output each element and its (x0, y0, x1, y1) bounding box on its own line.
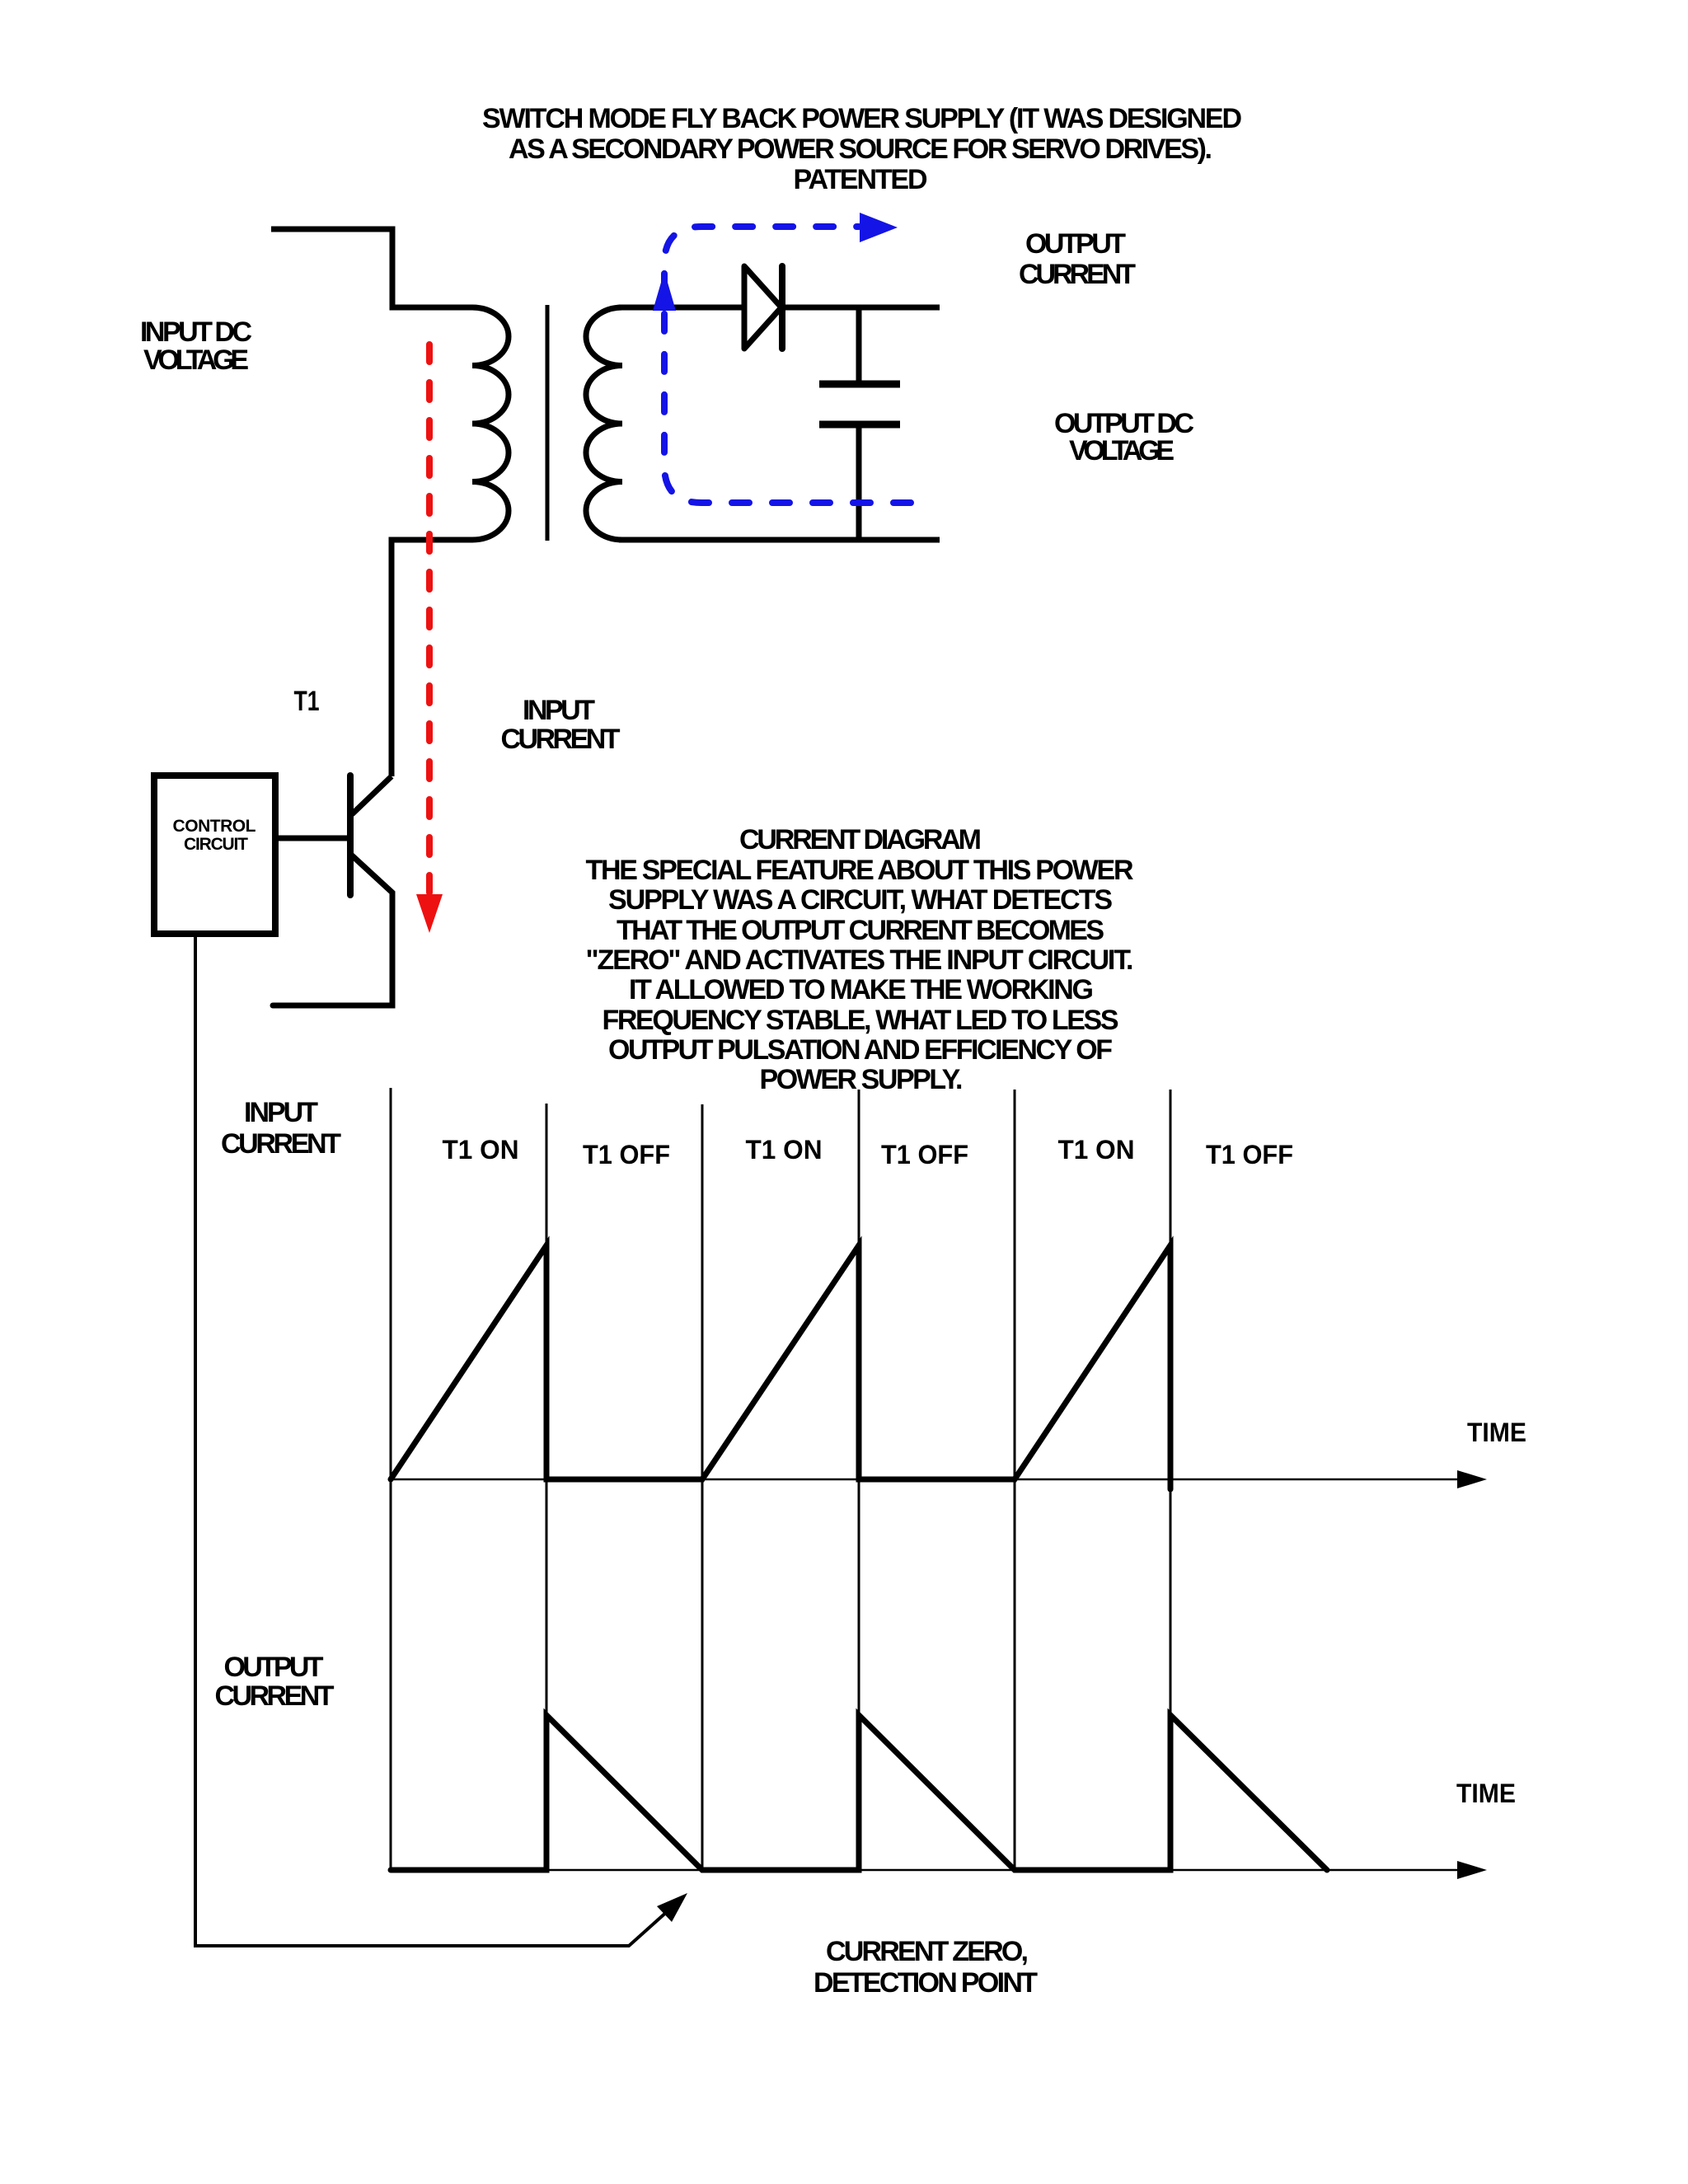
wire secondary top to diode (619, 305, 743, 311)
svg-text:CURRENT: CURRENT (501, 724, 621, 755)
svg-text:T1 ON: T1 ON (1058, 1135, 1135, 1165)
input current time axis (391, 1479, 1475, 1481)
label OUTPUT DC VOLTAGE (1054, 408, 1194, 466)
title text (482, 103, 1242, 195)
blue up arrowhead (653, 271, 676, 311)
svg-text:CIRCUIT: CIRCUIT (184, 835, 248, 854)
svg-text:PATENTED: PATENTED (794, 164, 928, 195)
wire capacitor top lead (856, 307, 862, 382)
svg-text:TIME: TIME (1456, 1779, 1516, 1808)
label INPUT CURRENT (graph) (221, 1097, 341, 1160)
control circuit label (173, 817, 256, 854)
svg-text:INPUT DC: INPUT DC (140, 316, 252, 348)
svg-text:VOLTAGE: VOLTAGE (1069, 435, 1175, 466)
transformer secondary winding (586, 307, 640, 540)
grid vertical V5 (1014, 1090, 1016, 1870)
svg-text:CURRENT: CURRENT (1019, 259, 1136, 290)
svg-text:VOLTAGE: VOLTAGE (143, 344, 249, 376)
svg-text:INPUT: INPUT (523, 695, 595, 726)
svg-text:IT ALLOWED TO MAKE THE WORKING: IT ALLOWED TO MAKE THE WORKING (629, 974, 1094, 1005)
blue dashed output current loop (664, 227, 917, 503)
wire primary bottom to collector (392, 540, 455, 776)
transistor T1 collector stroke (352, 776, 392, 814)
svg-text:T1 ON: T1 ON (746, 1135, 823, 1165)
label CURRENT ZERO DETECTION POINT (814, 1936, 1038, 1999)
output current time axis (391, 1869, 1475, 1872)
wire control circuit to detection point (195, 934, 668, 1946)
svg-text:T1 OFF: T1 OFF (583, 1140, 670, 1169)
svg-text:CURRENT: CURRENT (215, 1680, 335, 1712)
svg-text:FREQUENCY STABLE, WHAT LED TO: FREQUENCY STABLE, WHAT LED TO LESS (603, 1005, 1119, 1036)
svg-text:OUTPUT: OUTPUT (224, 1652, 324, 1683)
diode D1 (744, 266, 781, 349)
svg-text:OUTPUT PULSATION AND EFFICIENC: OUTPUT PULSATION AND EFFICIENCY OF (608, 1034, 1113, 1066)
transformer core (546, 305, 550, 541)
svg-text:"ZERO" AND ACTIVATES THE INPUT: "ZERO" AND ACTIVATES THE INPUT CIRCUIT. (586, 944, 1134, 976)
transistor T1 base bar (347, 776, 354, 895)
diode D1 cathode bar (779, 266, 785, 349)
output axis arrowhead (1457, 1861, 1487, 1879)
wire capacitor bottom lead (856, 427, 862, 541)
transformer primary winding (455, 307, 509, 540)
capacitor C1 top plate (819, 381, 900, 388)
input axis arrowhead (1457, 1470, 1487, 1488)
svg-text:DETECTION POINT: DETECTION POINT (814, 1967, 1038, 1999)
input current waveform (391, 1245, 1170, 1489)
label OUTPUT CURRENT (graph) (215, 1652, 335, 1712)
red arrowhead (416, 894, 443, 933)
svg-text:INPUT: INPUT (244, 1097, 318, 1128)
svg-text:AS A SECONDARY POWER SOURCE FO: AS A SECONDARY POWER SOURCE FOR SERVO DR… (509, 134, 1212, 165)
grid vertical V3 (701, 1104, 704, 1870)
svg-text:POWER SUPPLY.: POWER SUPPLY. (760, 1064, 964, 1095)
label OUTPUT CURRENT (schematic) (1019, 228, 1136, 290)
wire diode to output (784, 305, 940, 311)
blue right arrowhead (860, 213, 898, 242)
grid vertical V2 (546, 1104, 548, 1870)
transistor T1 emitter and wire (273, 855, 392, 1005)
svg-text:T1 OFF: T1 OFF (881, 1140, 968, 1169)
red dashed input current arrow (426, 344, 433, 893)
detection arrowhead (657, 1893, 687, 1922)
capacitor C1 bottom plate (819, 421, 900, 429)
svg-text:OUTPUT: OUTPUT (1025, 228, 1126, 260)
svg-text:THAT THE OUTPUT CURRENT BECOME: THAT THE OUTPUT CURRENT BECOMES (617, 915, 1104, 946)
control circuit box U1 (154, 776, 275, 934)
output current waveform (391, 1715, 1327, 1870)
svg-text:T1 ON: T1 ON (443, 1135, 519, 1165)
grid vertical V6 (1170, 1090, 1172, 1870)
wire secondary bottom (619, 537, 940, 543)
wire base to control circuit (275, 836, 350, 841)
svg-text:SUPPLY WAS A CIRCUIT, WHAT DET: SUPPLY WAS A CIRCUIT, WHAT DETECTS (608, 884, 1113, 916)
svg-text:T1 OFF: T1 OFF (1206, 1140, 1293, 1169)
svg-text:T1: T1 (294, 686, 320, 717)
svg-text:CURRENT: CURRENT (221, 1128, 341, 1160)
grid vertical V4 (858, 1090, 860, 1870)
label INPUT DC VOLTAGE (140, 316, 252, 376)
grid vertical V1 (390, 1088, 392, 1870)
label INPUT CURRENT (schematic) (501, 695, 621, 755)
svg-text:SWITCH MODE FLY BACK POWER SUP: SWITCH MODE FLY BACK POWER SUPPLY (IT WA… (482, 103, 1242, 134)
paragraph current diagram text (586, 824, 1134, 1095)
svg-text:THE SPECIAL FEATURE ABOUT THIS: THE SPECIAL FEATURE ABOUT THIS POWER (586, 855, 1134, 886)
wire input top (271, 229, 455, 307)
svg-text:TIME: TIME (1467, 1418, 1526, 1447)
svg-text:CONTROL: CONTROL (173, 817, 256, 836)
svg-text:CURRENT ZERO,: CURRENT ZERO, (826, 1936, 1029, 1967)
svg-text:CURRENT DIAGRAM: CURRENT DIAGRAM (739, 824, 982, 855)
